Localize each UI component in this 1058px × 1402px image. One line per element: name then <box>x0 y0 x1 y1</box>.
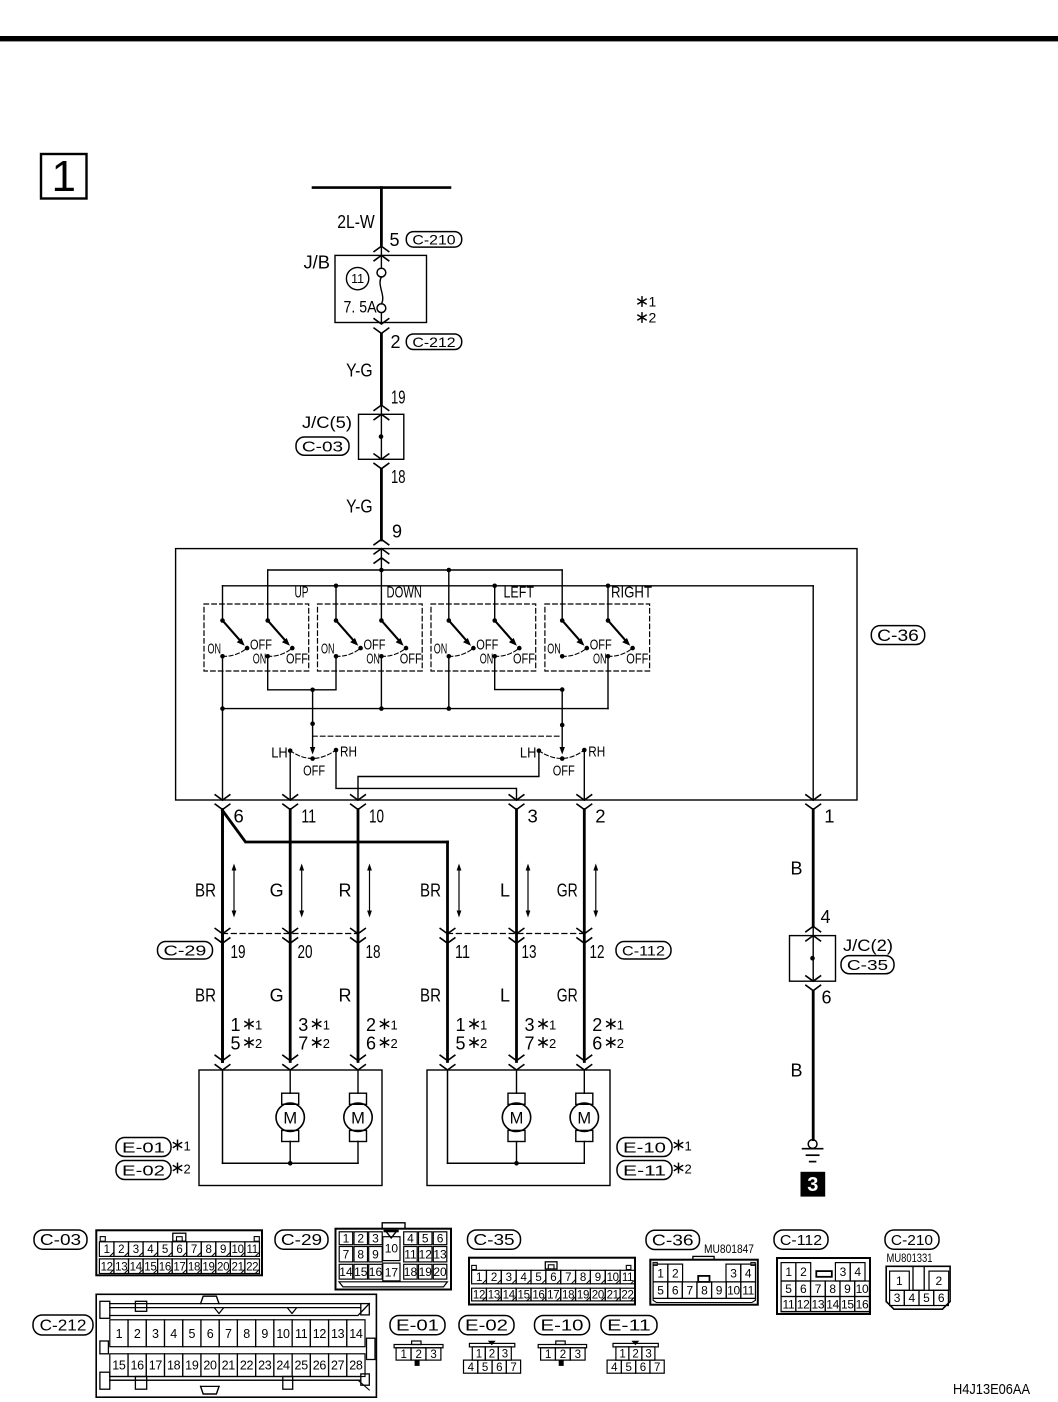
harness wire R at x=358.0 <box>357 810 360 1062</box>
wire Y-G lower <box>380 470 383 541</box>
svg-text:GR: GR <box>557 986 578 1006</box>
switch contact set DOWN sw2 <box>366 618 421 667</box>
svg-text:1: 1 <box>619 1349 625 1361</box>
svg-text:J/B: J/B <box>304 253 331 273</box>
svg-text:6: 6 <box>496 1362 502 1374</box>
connector tag C-35 bottom <box>468 1230 521 1249</box>
joint connector J/C(2) C-35 <box>806 926 821 941</box>
svg-text:2: 2 <box>549 1036 556 1051</box>
svg-text:1: 1 <box>476 1349 482 1361</box>
svg-text:1: 1 <box>685 1139 692 1154</box>
svg-text:LH: LH <box>520 745 537 762</box>
connector C-36 pin 9 crossing <box>374 539 389 554</box>
svg-text:6: 6 <box>672 1283 679 1297</box>
fuse 11 circled designator <box>346 267 368 289</box>
svg-text:5: 5 <box>657 1283 664 1297</box>
svg-text:20: 20 <box>298 941 313 962</box>
harness wire BR at x=447.5 <box>446 842 449 1062</box>
svg-text:1: 1 <box>116 1327 123 1341</box>
svg-text:15: 15 <box>841 1297 854 1311</box>
wire RH2 to pin 2 <box>583 751 585 800</box>
svg-text:15: 15 <box>354 1265 368 1279</box>
svg-text:2L-W: 2L-W <box>337 212 375 232</box>
svg-text:1: 1 <box>184 1139 191 1154</box>
svg-text:19: 19 <box>231 941 246 962</box>
svg-text:11: 11 <box>455 941 470 962</box>
wire to pin 1 <box>812 586 814 800</box>
svg-text:LEFT: LEFT <box>504 585 535 602</box>
harness wire L at x=516.5 <box>515 810 518 1062</box>
svg-text:21: 21 <box>222 1359 236 1373</box>
C-36 pin 1 <box>806 795 835 827</box>
svg-text:6: 6 <box>800 1282 807 1296</box>
connector tag E-02 <box>116 1161 171 1180</box>
harness wire G at x=290.2 <box>289 810 292 1062</box>
svg-text:3: 3 <box>502 1349 508 1361</box>
branch jog pin6 to col4 <box>223 811 448 843</box>
pin note 3*1 7*2 <box>525 1015 557 1054</box>
connector tag C-112 <box>616 942 671 960</box>
svg-text:J/C(2): J/C(2) <box>843 936 893 955</box>
svg-text:12: 12 <box>101 1261 113 1273</box>
svg-text:2: 2 <box>184 1162 191 1177</box>
svg-text:19: 19 <box>391 388 406 408</box>
svg-text:2: 2 <box>366 1015 376 1035</box>
svg-text:22: 22 <box>246 1261 258 1273</box>
wire UP sw1 ON to pin 6 <box>222 656 224 800</box>
svg-text:17: 17 <box>173 1261 185 1273</box>
svg-text:14: 14 <box>503 1290 516 1302</box>
svg-text:15: 15 <box>112 1359 126 1373</box>
svg-text:3: 3 <box>430 1349 436 1361</box>
connector tag E-02 bottom <box>459 1316 514 1335</box>
svg-text:E-02: E-02 <box>465 1318 508 1335</box>
wire 2L-W from bus to J/B <box>380 188 383 245</box>
internal feed line 1 <box>268 569 563 571</box>
svg-text:3: 3 <box>372 1232 379 1246</box>
connector tag C-212 <box>406 334 461 350</box>
ground reference box 3 <box>801 1172 826 1197</box>
svg-text:C-112: C-112 <box>780 1233 822 1249</box>
svg-text:7. 5A: 7. 5A <box>344 299 377 317</box>
svg-text:C-35: C-35 <box>847 957 888 974</box>
junction block J/B <box>335 255 427 322</box>
svg-text:7: 7 <box>191 1244 197 1256</box>
svg-text:6: 6 <box>234 806 244 827</box>
svg-text:4: 4 <box>407 1232 414 1246</box>
svg-text:C-210: C-210 <box>891 1233 933 1249</box>
svg-text:20: 20 <box>203 1359 217 1373</box>
svg-text:1: 1 <box>52 152 76 201</box>
motor M3 <box>502 1070 530 1163</box>
svg-text:C-29: C-29 <box>281 1232 322 1249</box>
switch feed stubs <box>222 586 224 621</box>
svg-text:ON: ON <box>253 650 267 667</box>
svg-text:OFF: OFF <box>286 650 308 667</box>
svg-text:7: 7 <box>654 1362 660 1374</box>
svg-text:ON: ON <box>208 641 222 658</box>
svg-text:20: 20 <box>217 1261 229 1273</box>
svg-text:M: M <box>577 1109 591 1127</box>
wire input into switch <box>380 549 382 621</box>
svg-text:MU801847: MU801847 <box>704 1244 754 1256</box>
svg-text:2: 2 <box>672 1266 679 1280</box>
svg-text:M: M <box>283 1109 297 1127</box>
svg-text:1: 1 <box>343 1232 350 1246</box>
svg-text:1: 1 <box>545 1349 551 1361</box>
svg-text:16: 16 <box>369 1265 383 1279</box>
svg-text:2: 2 <box>800 1265 807 1279</box>
svg-text:OFF: OFF <box>400 650 422 667</box>
svg-text:13: 13 <box>331 1327 345 1341</box>
footnote markers *1 *2 <box>638 294 657 326</box>
switch contact set DOWN sw1 <box>321 618 386 658</box>
switch contact set LEFT sw2 <box>480 618 535 667</box>
svg-text:E-01: E-01 <box>396 1318 439 1335</box>
svg-text:E-10: E-10 <box>541 1318 584 1335</box>
svg-text:10: 10 <box>856 1282 869 1296</box>
svg-text:7: 7 <box>298 1034 308 1054</box>
connector tag C-36 bottom <box>646 1230 700 1249</box>
svg-text:21: 21 <box>232 1261 244 1273</box>
svg-text:L: L <box>500 986 510 1006</box>
svg-text:5: 5 <box>456 1034 466 1054</box>
svg-text:C-03: C-03 <box>40 1232 81 1249</box>
svg-text:OFF: OFF <box>303 763 325 780</box>
svg-text:4: 4 <box>821 907 831 927</box>
svg-text:16: 16 <box>856 1297 869 1311</box>
selector sw1 common feed <box>312 690 314 747</box>
connector tag E-10 <box>617 1138 672 1157</box>
connector C-212 pin 2 crossing <box>380 313 382 324</box>
svg-text:Y-G: Y-G <box>346 361 373 381</box>
svg-text:C-36: C-36 <box>877 627 919 645</box>
svg-text:E-02: E-02 <box>122 1162 165 1179</box>
svg-text:2: 2 <box>935 1274 942 1288</box>
svg-text:13: 13 <box>522 941 537 962</box>
svg-text:3: 3 <box>152 1327 159 1341</box>
svg-text:1: 1 <box>549 1018 556 1033</box>
svg-text:BR: BR <box>420 986 441 1006</box>
connector C-210 pin 5 crossing <box>374 246 389 260</box>
svg-text:3: 3 <box>298 1015 308 1035</box>
svg-text:4: 4 <box>854 1265 861 1279</box>
connector tag C-210 bottom <box>885 1230 939 1249</box>
svg-text:3: 3 <box>645 1349 651 1361</box>
svg-text:9: 9 <box>716 1283 723 1297</box>
svg-text:16: 16 <box>159 1261 171 1273</box>
svg-text:7: 7 <box>815 1282 822 1296</box>
svg-text:3: 3 <box>807 1174 818 1196</box>
svg-text:2: 2 <box>592 1015 602 1035</box>
connector tag C-03 bottom <box>34 1230 87 1249</box>
connector tag C-36 <box>871 626 924 645</box>
wire LEFT sw2 / RIGHT sw1 U-link <box>495 656 563 689</box>
svg-text:10: 10 <box>369 806 384 827</box>
svg-text:24: 24 <box>276 1359 290 1373</box>
svg-text:ON: ON <box>593 650 607 667</box>
svg-text:1: 1 <box>649 294 657 310</box>
svg-text:2: 2 <box>685 1162 692 1177</box>
pin note 1*1 5*2 <box>231 1015 263 1054</box>
svg-text:4: 4 <box>745 1266 752 1280</box>
svg-text:16: 16 <box>130 1359 144 1373</box>
svg-text:E-01: E-01 <box>122 1139 165 1156</box>
svg-text:11: 11 <box>742 1283 754 1297</box>
svg-text:7: 7 <box>510 1362 516 1374</box>
svg-text:7: 7 <box>343 1248 350 1262</box>
svg-text:11: 11 <box>351 272 364 286</box>
C-36 pin 2 <box>577 795 606 827</box>
svg-text:DOWN: DOWN <box>387 585 423 602</box>
svg-text:6: 6 <box>938 1291 945 1305</box>
svg-text:C-03: C-03 <box>302 439 343 456</box>
svg-text:4: 4 <box>170 1327 177 1341</box>
connector tag E-10 bottom <box>535 1316 590 1335</box>
svg-text:10: 10 <box>727 1283 740 1297</box>
svg-text:1: 1 <box>480 1018 487 1033</box>
svg-text:2: 2 <box>480 1036 487 1051</box>
svg-text:1: 1 <box>785 1265 792 1279</box>
svg-text:3: 3 <box>133 1244 139 1256</box>
svg-text:BR: BR <box>195 986 216 1006</box>
power bus <box>313 186 450 189</box>
svg-text:11: 11 <box>404 1248 417 1262</box>
motor M1 <box>276 1070 304 1163</box>
svg-text:ON: ON <box>321 641 335 658</box>
fuse 7.5A symbol <box>377 268 386 312</box>
svg-text:RH: RH <box>340 744 357 761</box>
pin note 1*1 5*2 <box>456 1015 488 1054</box>
svg-text:M: M <box>510 1109 524 1127</box>
svg-text:5: 5 <box>923 1291 930 1305</box>
svg-text:18: 18 <box>167 1359 181 1373</box>
pin note 2*1 6*2 <box>592 1015 624 1054</box>
svg-text:4: 4 <box>611 1362 618 1374</box>
selector LH/RH sw2 <box>520 744 605 780</box>
svg-text:6: 6 <box>437 1232 444 1246</box>
svg-text:OFF: OFF <box>626 650 648 667</box>
svg-text:28: 28 <box>349 1359 363 1373</box>
svg-text:GR: GR <box>557 881 578 901</box>
svg-text:OFF: OFF <box>553 763 575 780</box>
svg-text:5: 5 <box>162 1244 168 1256</box>
wire RIGHT sw2 ON to bus <box>607 656 609 708</box>
svg-text:9: 9 <box>220 1244 226 1256</box>
motor M2 <box>344 1070 372 1163</box>
svg-text:1: 1 <box>255 1018 262 1033</box>
internal feed line 2 <box>223 585 814 587</box>
switch unit dashed boxes UP DOWN LEFT RIGHT <box>204 604 309 671</box>
svg-text:13: 13 <box>433 1248 447 1262</box>
svg-text:1: 1 <box>824 806 834 827</box>
svg-text:C-212: C-212 <box>40 1318 87 1335</box>
svg-text:5: 5 <box>422 1232 429 1246</box>
svg-text:1: 1 <box>896 1274 903 1288</box>
svg-text:ON: ON <box>547 641 561 658</box>
svg-text:12: 12 <box>313 1327 327 1341</box>
svg-text:17: 17 <box>149 1359 163 1373</box>
svg-text:3: 3 <box>730 1266 737 1280</box>
wire pin6 to branch <box>221 810 224 1062</box>
svg-text:1: 1 <box>401 1349 407 1361</box>
svg-text:26: 26 <box>313 1359 327 1373</box>
wire Y-G upper <box>380 334 383 405</box>
svg-text:Y-G: Y-G <box>346 497 373 517</box>
wire LEFT sw1 ON stub <box>448 656 450 708</box>
svg-text:2: 2 <box>134 1327 141 1341</box>
ground symbol <box>803 1140 823 1162</box>
svg-text:27: 27 <box>331 1359 345 1373</box>
svg-text:OFF: OFF <box>513 650 535 667</box>
svg-text:11: 11 <box>247 1244 258 1256</box>
svg-text:23: 23 <box>258 1359 272 1373</box>
svg-text:2: 2 <box>491 1272 497 1284</box>
svg-text:9: 9 <box>844 1282 851 1296</box>
harness wire BR at x=222.5 <box>221 810 224 1062</box>
harness wire GR at x=584.3 <box>583 810 586 1062</box>
svg-text:ON: ON <box>480 650 494 667</box>
svg-text:RH: RH <box>588 744 605 761</box>
svg-text:E-10: E-10 <box>623 1139 666 1156</box>
svg-text:5: 5 <box>482 1362 488 1374</box>
svg-text:14: 14 <box>826 1297 839 1311</box>
sunroof motor assembly box E-10/E-11 <box>427 1070 610 1186</box>
joint connector J/C(5) C-03 <box>374 405 389 420</box>
switch contact set UP sw2 <box>253 618 308 667</box>
svg-text:2: 2 <box>415 1349 421 1361</box>
wire LH1 to pin 11 <box>289 751 291 800</box>
svg-text:4: 4 <box>908 1291 915 1305</box>
svg-text:M: M <box>351 1109 365 1127</box>
svg-text:8: 8 <box>205 1244 211 1256</box>
svg-text:6: 6 <box>640 1362 646 1374</box>
svg-text:8: 8 <box>243 1327 250 1341</box>
svg-text:11: 11 <box>295 1327 308 1341</box>
svg-text:3: 3 <box>525 1015 535 1035</box>
svg-text:4: 4 <box>521 1272 528 1284</box>
svg-text:9: 9 <box>392 522 402 542</box>
svg-text:MU801331: MU801331 <box>887 1253 933 1265</box>
svg-text:2: 2 <box>323 1036 330 1051</box>
svg-text:3: 3 <box>840 1265 847 1279</box>
svg-text:10: 10 <box>276 1327 290 1341</box>
page top rule <box>0 36 1058 41</box>
svg-text:12: 12 <box>797 1297 810 1311</box>
connector tag C-03 <box>296 437 349 456</box>
svg-text:5: 5 <box>535 1272 541 1284</box>
svg-text:1: 1 <box>231 1015 241 1035</box>
C-36 pin 6 <box>215 795 244 827</box>
connector tag C-29 bottom <box>275 1230 328 1249</box>
svg-text:6: 6 <box>592 1034 602 1054</box>
svg-text:4: 4 <box>147 1244 154 1256</box>
svg-text:2: 2 <box>617 1036 624 1051</box>
svg-text:R: R <box>339 986 352 1006</box>
connector tag E-11 <box>617 1161 672 1180</box>
svg-text:1: 1 <box>657 1266 664 1280</box>
svg-text:19: 19 <box>419 1265 433 1279</box>
svg-text:7: 7 <box>565 1272 571 1284</box>
svg-text:6: 6 <box>207 1327 214 1341</box>
svg-text:3: 3 <box>575 1349 581 1361</box>
connector tag C-112 bottom <box>774 1230 828 1249</box>
svg-text:C-36: C-36 <box>652 1233 694 1250</box>
svg-text:5: 5 <box>390 230 400 250</box>
svg-text:13: 13 <box>812 1297 825 1311</box>
svg-text:C-112: C-112 <box>622 942 665 958</box>
svg-text:2: 2 <box>255 1036 262 1051</box>
svg-text:9: 9 <box>595 1272 601 1284</box>
svg-text:20: 20 <box>433 1265 447 1279</box>
wire DOWN sw2 ON stub <box>380 656 382 708</box>
connector tag E-11 bottom <box>601 1316 657 1335</box>
svg-text:E-11: E-11 <box>623 1162 666 1179</box>
svg-text:2: 2 <box>560 1349 566 1361</box>
svg-text:22: 22 <box>240 1359 254 1373</box>
svg-text:G: G <box>270 986 284 1006</box>
svg-text:J/C(5): J/C(5) <box>302 413 352 432</box>
svg-text:1: 1 <box>456 1015 466 1035</box>
svg-text:5: 5 <box>785 1282 792 1296</box>
switch contact set RIGHT sw1 <box>547 618 612 658</box>
connector tag E-01 <box>116 1138 171 1157</box>
svg-text:R: R <box>339 881 352 901</box>
svg-text:25: 25 <box>295 1359 309 1373</box>
svg-text:5: 5 <box>189 1327 196 1341</box>
svg-text:18: 18 <box>366 941 381 962</box>
connector tag C-35 <box>841 956 894 975</box>
svg-text:14: 14 <box>339 1265 353 1279</box>
svg-text:1: 1 <box>476 1272 482 1284</box>
selector sw2 common feed <box>561 690 563 747</box>
svg-text:2: 2 <box>489 1349 495 1361</box>
svg-text:C-35: C-35 <box>473 1232 514 1249</box>
svg-text:ON: ON <box>366 650 380 667</box>
svg-text:C-210: C-210 <box>412 231 455 247</box>
svg-text:L: L <box>500 881 510 901</box>
svg-text:C-212: C-212 <box>412 334 455 350</box>
svg-text:9: 9 <box>372 1248 379 1262</box>
svg-text:15: 15 <box>144 1261 156 1273</box>
svg-text:BR: BR <box>195 881 216 901</box>
switch contact set LEFT sw1 <box>434 618 499 658</box>
svg-text:19: 19 <box>185 1359 199 1373</box>
svg-text:5: 5 <box>231 1034 241 1054</box>
svg-text:6: 6 <box>176 1244 182 1256</box>
svg-text:G: G <box>270 881 284 901</box>
svg-text:2: 2 <box>391 332 401 352</box>
svg-text:6: 6 <box>366 1034 376 1054</box>
svg-text:6: 6 <box>822 988 832 1008</box>
svg-text:11: 11 <box>301 806 316 827</box>
svg-text:3: 3 <box>894 1291 901 1305</box>
svg-text:2: 2 <box>595 806 605 827</box>
svg-text:8: 8 <box>829 1282 836 1296</box>
svg-text:UP: UP <box>295 585 309 602</box>
svg-text:10: 10 <box>232 1244 244 1256</box>
svg-text:14: 14 <box>349 1327 363 1341</box>
svg-text:H4J13E06AA: H4J13E06AA <box>953 1381 1030 1398</box>
svg-text:ON: ON <box>434 641 448 658</box>
connector boundary dashes C-29 / C-112 <box>223 933 359 935</box>
svg-text:17: 17 <box>385 1266 399 1280</box>
wire B lower <box>812 991 815 1140</box>
mechanical link dashed <box>313 735 563 737</box>
pin note 3*1 7*2 <box>298 1015 330 1054</box>
svg-text:7: 7 <box>686 1283 693 1297</box>
svg-text:9: 9 <box>261 1327 268 1341</box>
